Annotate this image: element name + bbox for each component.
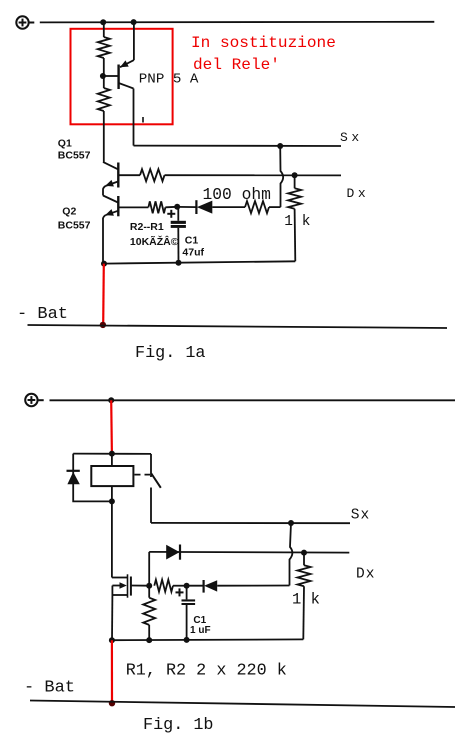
- node C1 bottom (Fig 1b): [184, 637, 190, 643]
- resistor 1 k (Fig 1b): [298, 553, 311, 640]
- wire red to battery minus (Fig 1b): [111, 640, 113, 702]
- wire PNP collector down to Sx: [133, 89, 135, 146]
- capacitor C1 (Fig 1b): [176, 586, 196, 640]
- svg-text:R2--R1: R2--R1: [130, 221, 164, 233]
- red substitution box: [71, 29, 173, 125]
- node gate chain junction: [146, 583, 152, 589]
- svg-text:100 ohm: 100 ohm: [203, 185, 271, 204]
- resistor Q2 base (R2): [119, 201, 178, 213]
- wire top supply rail (Fig 1b): [50, 399, 456, 401]
- node Q2 base / C1 / diode junction: [174, 204, 180, 210]
- wire stub artifact in box: [142, 117, 144, 123]
- node source bus left: [109, 637, 115, 643]
- diode Dx feed (pointing right): [166, 545, 180, 560]
- node rail / relay junction: [108, 397, 114, 403]
- svg-text:1 k: 1 k: [284, 214, 310, 230]
- transistor PNP 5A: [103, 22, 134, 89]
- resistor R2 (Fig 1b, horizontal): [154, 580, 186, 592]
- svg-text:Q2: Q2: [62, 206, 76, 218]
- svg-text:BC557: BC557: [58, 219, 91, 231]
- svg-text:PNP 5 A: PNP 5 A: [139, 71, 199, 87]
- svg-text:10KÃŽÂ©: 10KÃŽÂ©: [130, 235, 179, 248]
- wire Dx line (Fig 1b): [149, 551, 349, 554]
- node battery minus junction (Fig 1a): [100, 322, 106, 328]
- svg-text:47uf: 47uf: [182, 247, 204, 259]
- node Dx junction: [292, 172, 298, 178]
- node R1 bottom: [146, 637, 152, 643]
- svg-text:Sx: Sx: [340, 130, 363, 145]
- wire top supply rail (Fig 1a): [40, 21, 435, 24]
- capacitor C1 (Fig 1a): [167, 207, 186, 263]
- svg-text:Q1: Q1: [58, 137, 72, 149]
- wire emitter bus bottom rail (Fig 1a): [104, 261, 295, 263]
- switch contact (relay NO): [151, 454, 161, 523]
- node rail / R-top junction: [100, 19, 106, 25]
- wire red to battery minus (Fig 1a): [102, 264, 105, 324]
- wire Dx line (Fig 1a): [165, 174, 342, 176]
- transistor Q1 BC557: [103, 162, 118, 196]
- battery positive terminal (Fig 1b): [25, 394, 44, 406]
- wire Dx corner down to gate node: [148, 552, 150, 586]
- svg-text:1 uF: 1 uF: [190, 625, 211, 636]
- node C1 bottom: [176, 260, 182, 266]
- resistor R-bottom (lower divider): [98, 76, 110, 162]
- node emitter bus left: [101, 261, 107, 267]
- wire 100ohm up to Sx node with hop over Dx: [280, 146, 283, 207]
- node R2 / C1 / diode junction: [184, 583, 190, 589]
- node battery minus junction (Fig 1b): [109, 700, 115, 706]
- wire battery minus rail (Fig 1b): [30, 701, 455, 708]
- svg-text:Sx: Sx: [351, 508, 370, 524]
- wire battery minus rail (Fig 1a): [28, 325, 448, 328]
- resistor Q1 base (R1): [119, 169, 165, 181]
- svg-text:In sostituzione: In sostituzione: [191, 34, 336, 52]
- diode flyback (pointing up): [67, 471, 80, 484]
- node Dx junction (Fig 1b): [301, 550, 307, 556]
- diode discharge (pointing left, Fig 1b): [187, 580, 290, 593]
- wire Sx line (Fig 1a): [134, 145, 342, 147]
- svg-text:R1, R2 2 x 220 k: R1, R2 2 x 220 k: [126, 662, 287, 681]
- dashed mechanical link relay-switch: [135, 474, 151, 476]
- wire Sx down to gate chain with hop over Dx: [290, 523, 293, 586]
- node PNP base junction: [100, 73, 106, 79]
- battery positive terminal (Fig 1a): [16, 16, 34, 28]
- wire Sx line (Fig 1b): [151, 522, 350, 524]
- wire relay top branch: [73, 453, 151, 455]
- svg-text:- Bat: - Bat: [17, 305, 68, 324]
- svg-text:- Bat: - Bat: [24, 679, 75, 698]
- svg-text:BC557: BC557: [58, 149, 91, 161]
- svg-text:del Rele': del Rele': [193, 56, 280, 74]
- wire relay coil leads: [111, 454, 113, 502]
- wire red supply drop (Fig 1b): [110, 400, 113, 453]
- svg-text:Fig. 1a: Fig. 1a: [135, 344, 206, 363]
- svg-text:Fig. 1b: Fig. 1b: [143, 716, 214, 735]
- svg-text:1 k: 1 k: [292, 590, 320, 608]
- node rail / PNP emitter junction: [131, 19, 137, 25]
- transistor MOSFET: [112, 501, 149, 640]
- node relay bottom junction: [109, 498, 115, 504]
- resistor R1 (Fig 1b, vertical): [143, 586, 155, 640]
- svg-text:Dx: Dx: [347, 186, 370, 201]
- wire flyback diode branch left: [73, 454, 112, 502]
- svg-text:C1: C1: [185, 234, 199, 246]
- transistor Q2 BC557: [103, 196, 118, 264]
- resistor 100 ohm: [245, 201, 281, 213]
- node Sx junction: [277, 143, 283, 149]
- wire source bus bottom rail (Fig 1b): [112, 638, 303, 641]
- resistor R-top (upper divider): [98, 22, 110, 76]
- diode D1 (Fig 1a, pointing left): [177, 200, 245, 214]
- node Sx junction (Fig 1b): [288, 520, 294, 526]
- node relay top junction: [109, 451, 115, 457]
- svg-text:Dx: Dx: [356, 566, 375, 582]
- resistor 1 k (Fig 1a): [288, 175, 301, 261]
- relay coil box: [91, 466, 133, 486]
